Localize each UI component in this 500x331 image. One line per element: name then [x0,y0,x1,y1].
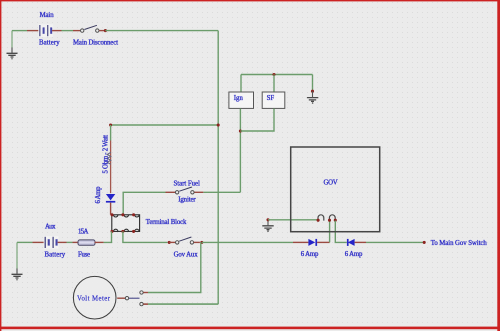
wire: down to SF box [273,75,275,92]
wire: Gov Aux junction to diode D3 [202,241,293,243]
wire: corner to igniter switch right [203,191,240,193]
wire: down to ground G2 [312,75,314,91]
switch S2 lead left [166,191,176,193]
wire: top run to right corner [105,30,218,32]
svg-text:Ign: Ign [234,95,244,102]
svg-text:15A: 15A [78,229,88,236]
node: ground G2 pin dot [311,90,314,93]
svg-text:Fuse: Fuse [78,252,90,259]
wire: aux ground to battery [17,241,33,243]
connector P1 (GOV ground pin) [318,215,324,221]
svg-text:Igniter: Igniter [178,197,196,204]
frame border [0,0,500,1]
svg-text:To Main Gov Switch: To Main Gov Switch [431,240,488,247]
fuse F1 15A [78,240,95,245]
terminal block TB1 [112,215,140,232]
switch S3 lead right [194,241,200,243]
wire: riser to GOV connector pin left [329,221,331,243]
box GOV [291,147,380,232]
wire: GOV pin right down to diode D4 [335,221,347,243]
resistor R1 lead top [110,141,112,194]
svg-text:Terminal Block: Terminal Block [146,219,187,226]
battery B2 lead left [33,241,45,243]
svg-text:Gov Aux: Gov Aux [174,252,199,259]
switch S4 throw circles [140,291,143,294]
svg-text:Aux: Aux [45,223,56,230]
node: TB pin dots top [110,213,113,216]
wire: main vertical down x=218 [217,31,219,305]
wire: battery to fuse [67,241,73,243]
node: P1 pin dot [317,219,320,222]
diode D3 lead right to GOV pin riser [317,241,330,243]
wire: upper throw to gov aux junction [148,242,201,292]
box U2 SF [262,92,285,108]
node: junction at left end of net B [109,123,112,126]
diode D3 6 Amp [308,239,317,246]
battery B2 (Aux) [44,236,59,249]
svg-text:Battery: Battery [39,40,60,47]
wire: TB bottom pin2 down and right to Gov Aux [123,231,168,242]
svg-text:Main: Main [40,12,55,19]
diode D1 lead bottom [110,203,112,215]
wire: battery to disconnect switch [62,30,74,32]
throw upper lead [143,292,148,294]
wire: net B down to resistor [110,125,112,141]
node: pin dot left of Gov Aux [168,241,171,244]
node: TB pin dots bottom [110,230,113,233]
diode D1 6 Amp (pointing down) [106,194,115,203]
node: P2 pin dots [328,219,331,222]
box U1 Ign [229,92,254,108]
wire: igniter left to terminal block [123,192,165,214]
switch S1 lead right [99,30,104,32]
svg-text:Battery: Battery [45,252,66,259]
wire: bottom of main vertical to voltmeter lower throw [148,303,219,305]
switch S4 (meter selector) common [125,297,128,300]
svg-text:6 Amp: 6 Amp [301,251,319,258]
meter M1 Volt Meter [73,276,116,319]
wire: SF output down then left [240,109,274,132]
diode D3 lead left [293,241,308,243]
fuse F1 lead left [73,241,79,243]
battery B2 lead right [58,241,67,243]
node: pin dot right of Main Disconnect [104,29,107,32]
meter M1 lead right [117,297,125,299]
wire: down to Ign box [240,75,242,92]
ground (main battery negative) [7,31,18,60]
fuse F1 lead right [95,241,104,243]
connector P2 (GOV jumper) [329,215,335,221]
switch S1 lead left [73,30,80,32]
wire: Ign output down to igniter switch level [239,109,241,193]
ground G3 (aux battery) [12,242,23,280]
node: junction right of Gov Aux (voltmeter tap) [200,241,203,244]
diode D4 lead right [355,241,366,243]
svg-text:GOV: GOV [324,179,338,186]
svg-text:Volt Meter: Volt Meter [77,295,111,302]
switch S3 lead left [169,241,175,243]
switch S1 Main Disconnect [81,25,100,32]
wire: net C ign/sf supply horizontal y=74.5 [241,74,313,76]
throw lower lead [143,303,148,305]
wire: lower throw toward main vertical [148,303,218,305]
svg-text:Start Fuel: Start Fuel [174,180,201,187]
wire: net A top horizontal from ground to battery [12,30,27,32]
node: junction net B with main vertical [217,123,220,126]
ground G4 (GOV) [262,220,273,232]
diode D4 6 Amp [347,239,355,246]
svg-text:Main Disconnect: Main Disconnect [73,40,118,47]
battery B1 lead right [52,30,61,32]
wire: to output node [366,241,423,243]
svg-text:6 Amp: 6 Amp [95,186,102,204]
battery B1 lead left [27,30,39,32]
node: output dot To Main Gov Switch [423,241,426,244]
ground G2 [307,91,318,104]
battery B1 (Main) [38,24,53,37]
resistor R1 5 Ohm 2 Watt (zigzag) [107,152,111,164]
switch S3 Gov Aux [176,237,194,244]
switch S2 Start Fuel Igniter [175,187,194,194]
node: junction SF supply [272,73,275,76]
wire: ground G4 to GOV connector pin [268,219,317,221]
svg-text:SF: SF [267,95,275,102]
svg-text:5 Ohm - 2 Watt: 5 Ohm - 2 Watt [102,135,109,174]
wire: net B horizontal y=125 [111,124,219,126]
node: junction Ign/SF outputs [239,129,242,132]
node: ground G4 pin dot [266,218,269,221]
wire: fuse to terminal block riser [104,231,112,242]
svg-text:6 Amp: 6 Amp [345,251,363,258]
switch S4 lever [129,297,140,299]
